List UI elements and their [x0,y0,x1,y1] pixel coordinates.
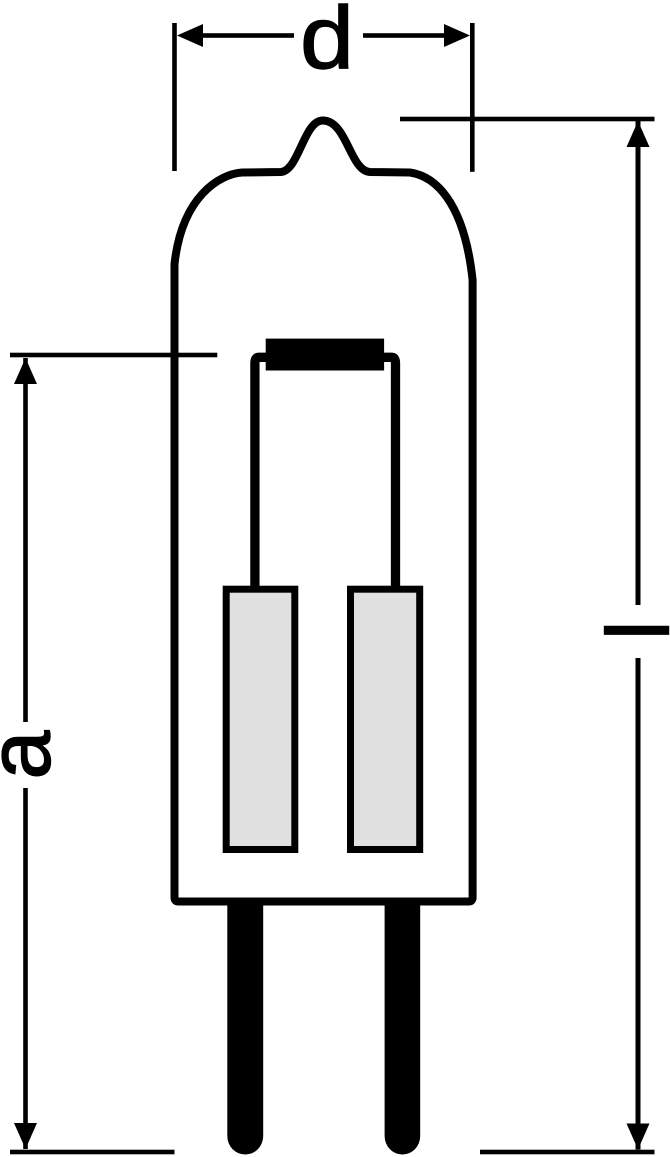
a arrowhead bottom [14,1123,37,1149]
d arrowhead left [177,24,203,47]
a dimension line upper segment [23,358,28,722]
svg-text:d: d [300,0,354,87]
l dimension line upper segment [636,121,641,605]
pin left [227,898,263,1155]
filament support wire right [382,357,396,589]
a dimension line lower segment [23,788,28,1149]
l arrowhead bottom [627,1124,650,1150]
d dimension line left segment [200,33,294,38]
d extension line right [470,23,475,172]
svg-text:l: l [589,621,670,641]
electrode plate left [226,589,295,849]
l arrowhead top [627,121,650,147]
lamp bulb outline [175,121,473,902]
a reference line top (filament center) [10,353,217,358]
pin right [385,898,421,1155]
l reference line top (lamp tip) [400,117,655,122]
svg-text:a: a [0,730,69,779]
d arrowhead right [444,24,470,47]
electrode plate right [351,589,420,849]
d extension line left [172,23,177,171]
filament plate F1 (black bar) [266,339,384,371]
filament support wire left [255,357,268,589]
d dimension line right segment [363,33,447,38]
l reference line bottom right [480,1150,655,1155]
l dimension line lower segment [636,658,641,1150]
a reference line bottom left [10,1150,175,1155]
a arrowhead top [14,358,37,384]
